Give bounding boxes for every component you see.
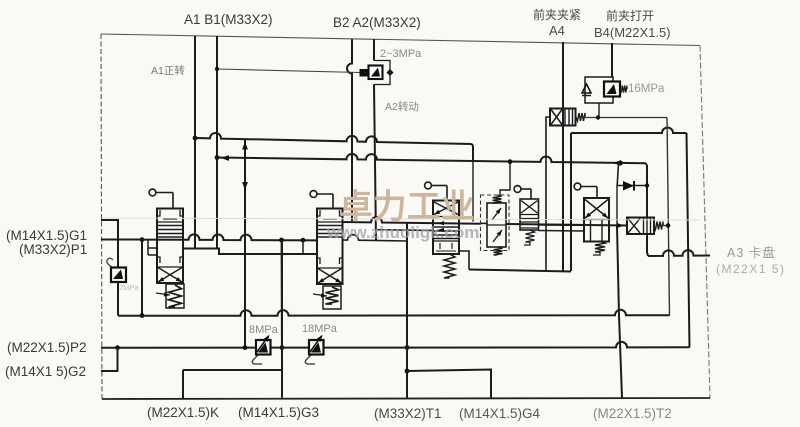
relief RV2 body (18MPa) xyxy=(309,340,324,355)
valve V4 dashed box xyxy=(481,195,510,251)
wire V3 tank branch xyxy=(459,251,469,270)
wire A2 vertical upper xyxy=(373,39,375,61)
svg-text:(M14X1.5)G1: (M14X1.5)G1 xyxy=(6,228,87,243)
wire K-G3 link xyxy=(183,369,282,371)
wire PV1 bottom to A3 xyxy=(647,234,648,256)
valve V4 top spring xyxy=(493,195,502,203)
valve V1 crossed arrows xyxy=(158,268,182,283)
wire merge continues to work line xyxy=(472,161,474,221)
wire A3 line xyxy=(648,250,710,256)
pilot valve PV1 spring xyxy=(654,222,663,230)
wire PV1 spring to x668 xyxy=(663,225,668,227)
valve V4 arrows inside xyxy=(492,208,501,220)
wire RV-B4 down stub xyxy=(598,103,600,118)
wire x687 vertical xyxy=(687,133,690,348)
sequence valve SQ1 body xyxy=(550,109,576,126)
relief RV-B4 spring xyxy=(620,86,627,93)
valve RV-G1 arrow inside xyxy=(113,270,123,280)
valve V1 divider xyxy=(157,221,183,223)
wire x668 vertical xyxy=(667,118,670,316)
wire P1 down branch xyxy=(141,240,143,316)
valve V4 bottom spring xyxy=(494,247,503,255)
valve V1 section stripes xyxy=(157,225,183,227)
sequence valve SQ1 spring xyxy=(576,113,585,121)
wire P1 stub upper to V1 xyxy=(148,240,157,248)
wire B2 vertical with hop over pilot line xyxy=(347,39,352,221)
svg-text:前夹夹紧: 前夹夹紧 xyxy=(533,7,581,22)
valve V6 body xyxy=(584,198,609,242)
wire T1 vertical xyxy=(406,223,408,398)
node on thin line xyxy=(596,115,600,119)
pilot valve PV1 stripes xyxy=(643,218,645,235)
valve V3 lever xyxy=(425,182,432,189)
valve V1 spring xyxy=(169,285,182,307)
border left edge xyxy=(101,34,102,399)
node bypass top right xyxy=(645,183,649,187)
relief RV1 arrow xyxy=(258,343,268,353)
valve RV-A2 pilot connector (black) xyxy=(360,69,368,77)
arrow up on x245 xyxy=(242,142,248,150)
valve V2 divider xyxy=(317,221,343,223)
valve V1 spring arrow xyxy=(156,293,170,295)
valve RV-G1 drain hook xyxy=(107,258,113,267)
valve V5 divider xyxy=(520,214,539,216)
wire thin line from SQ1 spring xyxy=(585,117,667,119)
svg-text:B4(M22X1.5): B4(M22X1.5) xyxy=(594,25,671,40)
svg-text:(M14X1.5)G3: (M14X1.5)G3 xyxy=(238,405,319,420)
valve V3 dividers xyxy=(433,216,459,218)
valve V5 lever xyxy=(514,186,521,193)
svg-text:(M14X1.5)G4: (M14X1.5)G4 xyxy=(459,406,541,421)
wire P2 line xyxy=(101,342,690,348)
valve V3 bottom marks xyxy=(439,243,441,249)
valve V5 body xyxy=(520,199,539,230)
port line A4 xyxy=(562,42,564,271)
check valve CV-B4 xyxy=(582,84,591,93)
valve V2 spring xyxy=(326,287,339,304)
valve V6 spring hook xyxy=(595,242,605,253)
pilot valve PV1 X section xyxy=(628,219,640,234)
border bottom edge xyxy=(102,398,710,399)
valve V5 crossed arrows xyxy=(521,201,538,214)
border top edge xyxy=(101,34,700,46)
svg-text:(M22X1.5)K: (M22X1.5)K xyxy=(147,405,219,420)
valve V3 mid marks xyxy=(433,226,459,228)
svg-text:(M14X1 5)G2: (M14X1 5)G2 xyxy=(5,364,86,379)
valve V2 section stripes xyxy=(317,225,343,227)
svg-text:18MPa: 18MPa xyxy=(302,323,338,335)
node P2 G3 xyxy=(280,345,285,350)
wire bus stub down x303 xyxy=(302,240,304,254)
relief RV1 body (8MPa) xyxy=(256,340,271,355)
wire below RV-G1 xyxy=(117,282,119,316)
wire T1-G4 link xyxy=(407,370,491,399)
node bus x303 junction xyxy=(301,238,306,243)
node line B at x510 xyxy=(508,159,513,164)
wire main bus P (y240) xyxy=(142,234,317,240)
svg-text:8MPa: 8MPa xyxy=(249,324,279,336)
wire pilot line A1-to-A2valve (thin) xyxy=(217,69,360,73)
arrow into PV1 xyxy=(617,223,624,228)
svg-text:(M33X2)T1: (M33X2)T1 xyxy=(374,406,442,421)
relief RV-B4 body xyxy=(604,82,620,97)
svg-text:16MPa: 16MPa xyxy=(628,83,665,95)
valve V1 spring box xyxy=(166,284,184,308)
valve V2 port marks mid xyxy=(317,258,320,264)
relief RV1 drain hook xyxy=(252,355,262,364)
valve V6 crossed arrows xyxy=(585,200,608,219)
port line A1 xyxy=(194,36,196,249)
svg-text:A3 卡盘: A3 卡盘 xyxy=(727,245,776,260)
wire T line y315 xyxy=(118,310,670,316)
check valve CV-PV1 (black) xyxy=(623,181,634,191)
wire P1 stub lower to V1 xyxy=(148,254,157,256)
node line A at A1 xyxy=(193,136,198,141)
node PV1 spring to x668 xyxy=(666,223,671,228)
wire work line W2 (A2 to V3) xyxy=(377,229,433,232)
wire pilot from line B to V4 xyxy=(500,162,510,195)
arrow on line B pointing left xyxy=(221,155,229,161)
relief RV-B4 box xyxy=(585,77,613,103)
valve V2 spring arrow xyxy=(313,294,327,296)
svg-text:B2 A2(M33X2): B2 A2(M33X2) xyxy=(333,15,421,30)
valve V2 crossed arrows xyxy=(318,269,342,284)
arrow down on x245 xyxy=(242,182,248,190)
pilot valve PV1 body xyxy=(627,218,654,235)
svg-text:A4: A4 xyxy=(549,23,565,38)
svg-text:(M22X1 5): (M22X1 5) xyxy=(716,262,786,276)
valve V1 lever xyxy=(149,189,156,196)
node line B at x620 xyxy=(618,161,623,166)
fold crease (faint) xyxy=(103,218,700,220)
port line B1 xyxy=(216,36,218,249)
valve V1 port marks mid xyxy=(157,257,160,263)
wire G1 port entry xyxy=(101,220,118,268)
svg-text:前夹打开: 前夹打开 xyxy=(606,8,654,23)
svg-text:2MPa: 2MPa xyxy=(119,283,139,292)
wire A2 vertical lower xyxy=(374,85,376,241)
wire tank line y271 xyxy=(469,270,571,272)
wire bus line A (upper) xyxy=(195,133,471,144)
svg-text:(M22X1.5)P2: (M22X1.5)P2 xyxy=(7,340,87,355)
valve V6 divider xyxy=(584,219,609,221)
valve RV-A2 arrow inside xyxy=(371,68,380,77)
svg-text:www.zhuoligk.com: www.zhuoligk.com xyxy=(326,223,479,242)
valve V5 spring hook xyxy=(526,230,535,242)
wire G3 vertical xyxy=(281,240,284,398)
node P1 junction xyxy=(140,237,145,242)
node P1 at T line xyxy=(140,313,145,318)
border right edge xyxy=(700,46,710,399)
wire bus line B (lower) xyxy=(217,154,646,163)
svg-text:(M33X2)P1: (M33X2)P1 xyxy=(19,242,87,257)
node G3 top junction xyxy=(279,238,284,243)
node P2 T1 xyxy=(405,345,410,350)
wire heavy line y133 xyxy=(571,128,687,134)
valve V4 body xyxy=(487,203,506,247)
valve RV-A2 body xyxy=(369,66,383,80)
node pilot line at B1 xyxy=(215,67,219,71)
wire secondary bus xyxy=(183,249,317,255)
valve V1 body xyxy=(157,209,183,284)
valve V6 bottom lines xyxy=(590,220,592,242)
valve RV-A2 bypass loop xyxy=(374,61,390,85)
node line B at B1 xyxy=(215,155,220,160)
valve V3 crossed arrows xyxy=(434,202,458,215)
wire V2 elbow line to T1 xyxy=(343,235,408,241)
svg-text:A1正转: A1正转 xyxy=(151,64,185,77)
node diamond on bypass xyxy=(386,69,393,76)
wire T2 vertical xyxy=(617,226,622,398)
valve V2 port marks top xyxy=(317,210,320,216)
valve V2 spring box xyxy=(323,286,341,309)
node P2-G2 junction xyxy=(115,345,120,350)
svg-text:(M22X1.5)T2: (M22X1.5)T2 xyxy=(593,406,672,421)
wire work line W1 V2..V4 xyxy=(343,217,482,224)
relief RV2 arrow xyxy=(311,343,321,353)
svg-text:A2转动: A2转动 xyxy=(385,100,419,113)
svg-text:2~3MPa: 2~3MPa xyxy=(380,48,422,60)
arrow on line B pointing left (right section) xyxy=(613,160,621,166)
wire second line V5..V6 xyxy=(539,230,585,233)
sequence valve SQ1 X section xyxy=(551,110,562,125)
valve V6 lever xyxy=(574,183,581,190)
wire work line V5..V6 xyxy=(539,224,585,226)
node P2 x245 xyxy=(243,345,248,350)
relief RV2 drain hook xyxy=(305,355,315,364)
wire work line V3..V5 gap xyxy=(481,222,487,224)
valve RV-G1 body xyxy=(111,268,126,283)
wire x571 vertical xyxy=(570,133,572,271)
wire G2 port entry xyxy=(101,348,118,371)
valve V5 bottom marks xyxy=(520,218,539,220)
valve V2 lever xyxy=(310,191,317,198)
wire line B corner down to pilot valve xyxy=(646,163,647,217)
wire P1 port entry xyxy=(101,239,142,241)
valve V3 spring xyxy=(444,254,455,278)
wire T2 top segment xyxy=(617,163,618,186)
wire line A bend down to line B xyxy=(471,144,473,161)
sequence valve SQ1 stripes xyxy=(564,109,566,126)
wire SQ1 left port xyxy=(546,117,550,271)
wire check bypass around PV1 xyxy=(617,186,647,226)
valve V2 body xyxy=(317,209,343,285)
wire K port stub xyxy=(182,370,184,399)
valve V1 port marks top xyxy=(157,210,160,216)
svg-text:A1 B1(M33X2): A1 B1(M33X2) xyxy=(184,12,273,27)
wire G3 lower xyxy=(281,240,283,398)
relief RV-B4 arrow xyxy=(607,84,617,94)
svg-text:卓力工业: 卓力工业 xyxy=(339,189,475,226)
wire center vertical x245 xyxy=(244,139,246,348)
wire work line V4..PV1 xyxy=(506,224,627,226)
port line B4 xyxy=(611,43,613,77)
node T1 y371 xyxy=(405,369,410,374)
valve V3 body xyxy=(433,201,459,255)
